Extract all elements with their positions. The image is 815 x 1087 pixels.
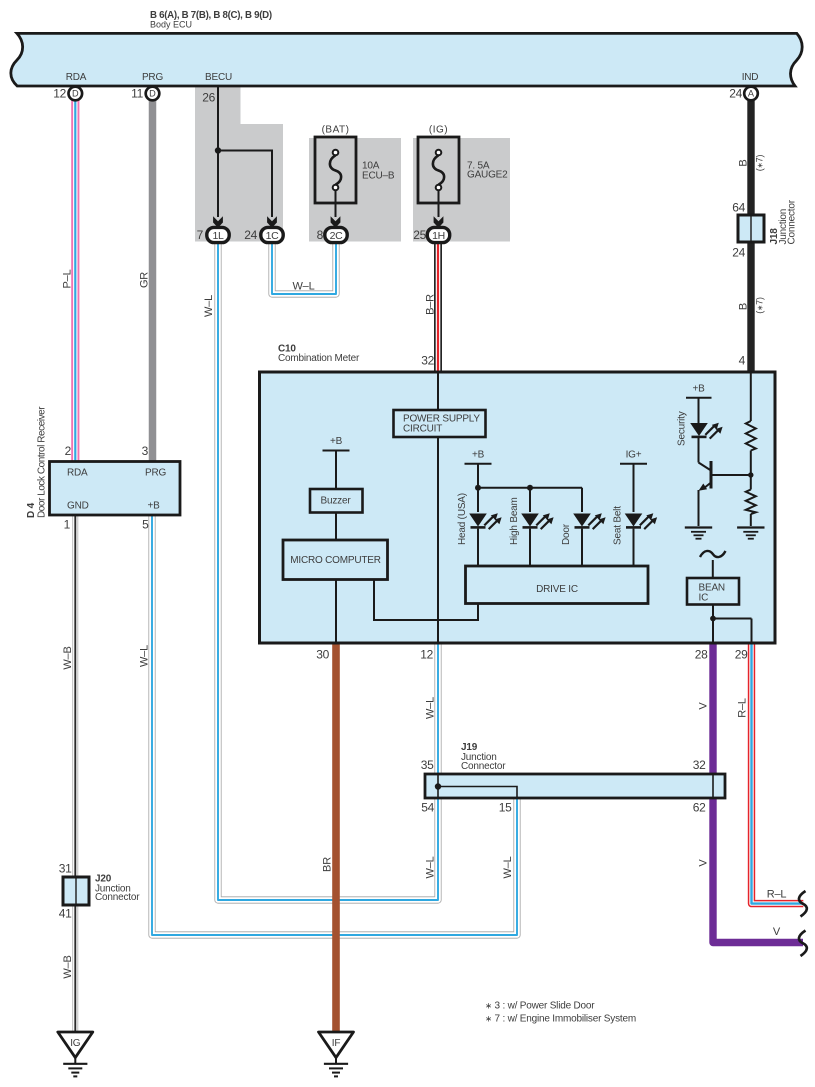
svg-text:1L: 1L bbox=[212, 230, 224, 242]
svg-text:A: A bbox=[748, 89, 755, 99]
transistor Q1 emitter diagonal bbox=[704, 483, 712, 489]
svg-text:W–L: W–L bbox=[139, 645, 151, 667]
antenna squiggle above BEAN IC bbox=[700, 551, 726, 557]
svg-text:1: 1 bbox=[64, 518, 71, 532]
svg-text:∗ 7 : w/ Engine Immobiliser Sy: ∗ 7 : w/ Engine Immobiliser System bbox=[485, 1014, 636, 1025]
LED Security bbox=[690, 423, 722, 439]
svg-text:12: 12 bbox=[420, 648, 433, 662]
svg-text:(∗7): (∗7) bbox=[755, 155, 765, 172]
svg-text:IG+: IG+ bbox=[626, 450, 642, 461]
svg-text:41: 41 bbox=[59, 907, 72, 921]
svg-text:54: 54 bbox=[421, 801, 434, 815]
svg-text:W–L: W–L bbox=[425, 856, 437, 878]
C10 Combination Meter box bbox=[260, 372, 776, 643]
junction dot below BEAN IC bbox=[710, 616, 716, 622]
wire MICRO COMPUTER to DRIVE IC bbox=[374, 580, 478, 621]
shaded region around fuse ECU-B bbox=[309, 138, 401, 242]
arrow into connector 1H bbox=[434, 216, 444, 228]
svg-text:W–L: W–L bbox=[425, 697, 437, 719]
svg-text:W–L: W–L bbox=[502, 856, 514, 878]
DRIVE IC box bbox=[466, 566, 649, 604]
fuse GAUGE2 7.5A (IG) bbox=[418, 137, 459, 217]
svg-text:IC: IC bbox=[699, 593, 709, 604]
svg-text:+B: +B bbox=[692, 384, 705, 395]
svg-text:GAUGE2: GAUGE2 bbox=[467, 170, 508, 181]
wire B (black) from IND through J18 to C10 pin4 bbox=[747, 100, 754, 371]
wire pin4 to resistor R1 bbox=[750, 374, 752, 422]
arrow into connector 1L bbox=[213, 216, 223, 228]
svg-text:12: 12 bbox=[53, 87, 66, 101]
svg-text:W–B: W–B bbox=[62, 646, 74, 669]
wire R1 to node bbox=[750, 451, 752, 490]
wire Door LED to DRIVE IC bbox=[581, 529, 583, 566]
BEAN IC box bbox=[687, 578, 739, 605]
wire BEAN IC to pin28 bbox=[712, 605, 714, 644]
svg-text:BR: BR bbox=[322, 857, 334, 872]
wire POWER SUPPLY CIRCUIT to pin12 bbox=[437, 437, 439, 643]
J20 designator label bbox=[95, 874, 140, 904]
svg-text:High Beam: High Beam bbox=[509, 497, 520, 545]
shaded region around BECU pins bbox=[195, 86, 283, 242]
wire P-L (pink-blue) from RDA to D4 pin2 bbox=[71, 100, 79, 462]
svg-text:ECU–B: ECU–B bbox=[362, 171, 395, 182]
svg-text:(IG): (IG) bbox=[429, 125, 448, 136]
wire MICRO COMPUTER to pin30 bbox=[335, 580, 337, 644]
svg-text:30: 30 bbox=[316, 648, 329, 662]
svg-text:24: 24 bbox=[244, 228, 257, 242]
wire R2 to ground bbox=[750, 514, 752, 526]
svg-text:64: 64 bbox=[732, 201, 745, 215]
svg-text:B–R: B–R bbox=[425, 294, 437, 315]
svg-text:PRG: PRG bbox=[142, 72, 163, 83]
svg-text:B: B bbox=[738, 303, 750, 310]
svg-text:35: 35 bbox=[421, 758, 434, 772]
svg-text:IF: IF bbox=[332, 1038, 341, 1049]
D4 Door Lock Control Receiver box bbox=[50, 462, 181, 516]
svg-text:Body ECU: Body ECU bbox=[150, 20, 192, 30]
+B supply bar (buzzer branch) bbox=[323, 450, 350, 452]
wire base to resistor divider node bbox=[711, 474, 751, 476]
wire Security LED to transistor collector bbox=[698, 437, 700, 462]
svg-text:5: 5 bbox=[142, 518, 149, 532]
wire V (violet) from C10 pin28 through J19 pin32/62 to right edge bbox=[713, 643, 803, 943]
svg-text:29: 29 bbox=[735, 648, 748, 662]
Body ECU band (torn-edge bus block) bbox=[11, 33, 802, 86]
svg-text:V: V bbox=[698, 859, 710, 867]
svg-text:Connector: Connector bbox=[461, 761, 506, 772]
connector oval 1H bbox=[427, 227, 449, 242]
wire B-R (black-red) from 1H to C10 pin32 bbox=[434, 242, 442, 371]
fuse ECU-B 10A (BAT) bbox=[315, 137, 356, 217]
transistor Q1 base bar bbox=[710, 461, 713, 489]
svg-text:W–B: W–B bbox=[62, 955, 74, 978]
+B supply bar (security branch) bbox=[686, 397, 712, 399]
transistor Q1 collector diagonal bbox=[699, 463, 712, 471]
svg-text:24: 24 bbox=[732, 246, 745, 260]
ground IG bbox=[58, 1032, 93, 1076]
svg-text:GR: GR bbox=[139, 272, 151, 288]
svg-text:V: V bbox=[773, 926, 781, 938]
wire emitter to ground bbox=[698, 490, 700, 526]
wire W-L from D4 pin5 +B to J19 pin15 bbox=[152, 514, 517, 935]
svg-text:CIRCUIT: CIRCUIT bbox=[403, 423, 442, 434]
svg-text:GND: GND bbox=[67, 501, 89, 512]
LED supply rail bbox=[478, 487, 582, 489]
arrow into connector 2C bbox=[331, 216, 341, 228]
junction connector J19 bbox=[425, 774, 725, 798]
svg-text:∗ 3 : w/ Power Slide Door: ∗ 3 : w/ Power Slide Door bbox=[485, 1001, 595, 1012]
svg-text:2: 2 bbox=[65, 444, 72, 458]
svg-text:(∗7): (∗7) bbox=[755, 297, 765, 314]
+B supply bar (LED rail) bbox=[465, 463, 492, 465]
transistor Q1 emitter arrowhead bbox=[699, 484, 708, 491]
wire branch to 1C bbox=[218, 151, 272, 218]
svg-text:Door: Door bbox=[561, 523, 572, 545]
svg-text:Seat Belt: Seat Belt bbox=[613, 506, 624, 545]
wire +B to Security LED bbox=[698, 398, 700, 423]
wire W-L from 1C to 2C bbox=[272, 242, 336, 294]
svg-text:R–L: R–L bbox=[767, 889, 787, 901]
wire IG+ to Seat Belt LED bbox=[633, 464, 635, 512]
torn end squiggle on wire V bbox=[799, 931, 807, 957]
wire rail to Door LED bbox=[581, 488, 583, 512]
svg-text:11: 11 bbox=[131, 87, 143, 101]
junction dot on BECU wire bbox=[215, 147, 221, 153]
svg-text:W–L: W–L bbox=[292, 281, 314, 293]
wire R-L (red-blue) from C10 pin29 to right edge bbox=[752, 643, 804, 904]
wire antenna squiggle to BEAN IC bbox=[712, 560, 714, 578]
svg-text:2C: 2C bbox=[330, 230, 344, 242]
ground under resistor R2 bbox=[737, 528, 764, 539]
svg-text:DRIVE IC: DRIVE IC bbox=[536, 584, 578, 595]
svg-text:7: 7 bbox=[197, 228, 204, 242]
connector circle A at IND bbox=[744, 87, 758, 101]
LED Door bbox=[573, 513, 605, 529]
wire +B to LED rail bbox=[477, 464, 479, 512]
wire BR (brown) from C10 pin30 to ground IF bbox=[332, 643, 340, 1031]
svg-text:Buzzer: Buzzer bbox=[321, 496, 352, 507]
svg-text:25: 25 bbox=[413, 228, 426, 242]
J19 internal bus pin32 to pin62 bbox=[712, 774, 714, 798]
svg-text:15: 15 bbox=[499, 801, 512, 815]
J19 designator label bbox=[461, 742, 506, 772]
wire Seat Belt LED to DRIVE IC bbox=[633, 529, 635, 566]
svg-text:62: 62 bbox=[693, 801, 706, 815]
J19 internal branch to pin15 bbox=[438, 787, 517, 799]
arrow into connector 1C bbox=[267, 216, 277, 228]
POWER SUPPLY CIRCUIT box bbox=[394, 410, 486, 437]
wire pin32 to POWER SUPPLY CIRCUIT bbox=[437, 374, 439, 411]
svg-text:PRG: PRG bbox=[145, 468, 166, 479]
svg-text:1H: 1H bbox=[432, 230, 445, 242]
svg-text:32: 32 bbox=[693, 758, 706, 772]
LED Seat Belt bbox=[625, 513, 657, 529]
connector oval 1C bbox=[261, 227, 283, 242]
svg-text:Combination Meter: Combination Meter bbox=[278, 353, 360, 364]
svg-text:BECU: BECU bbox=[205, 72, 232, 83]
wire +B to Buzzer bbox=[335, 451, 337, 490]
svg-text:26: 26 bbox=[202, 91, 215, 105]
ground IF bbox=[319, 1032, 354, 1076]
shaded region around fuse GAUGE2 bbox=[413, 138, 510, 242]
resistor R1 bbox=[746, 421, 756, 451]
svg-text:B: B bbox=[738, 159, 750, 166]
ground under transistor emitter bbox=[685, 528, 712, 539]
junction connector J20 bbox=[63, 877, 89, 905]
svg-text:IG: IG bbox=[70, 1038, 81, 1049]
svg-text:Security: Security bbox=[677, 411, 688, 446]
svg-text:+B: +B bbox=[472, 450, 485, 461]
junction dot on LED rail at High Beam bbox=[527, 485, 533, 491]
connector circle D at RDA bbox=[69, 87, 83, 101]
svg-text:D: D bbox=[149, 89, 156, 99]
J19 internal bus pin35 to pin54 bbox=[437, 774, 439, 798]
LED High Beam bbox=[521, 513, 553, 529]
resistor R2 bbox=[746, 490, 756, 515]
svg-text:W–L: W–L bbox=[203, 295, 215, 317]
svg-text:D: D bbox=[72, 89, 79, 99]
junction dot inside J19 bbox=[435, 783, 441, 789]
svg-text:+B: +B bbox=[330, 436, 343, 447]
wire High Beam LED to DRIVE IC bbox=[529, 529, 531, 566]
svg-text:28: 28 bbox=[695, 648, 708, 662]
connector circle D at PRG bbox=[146, 87, 160, 101]
connector oval 2C bbox=[325, 227, 347, 242]
MICRO COMPUTER box bbox=[283, 540, 388, 580]
svg-text:V: V bbox=[698, 702, 710, 710]
junction dot on LED rail at Head bbox=[475, 485, 481, 491]
svg-text:Head (USA): Head (USA) bbox=[457, 493, 468, 545]
svg-text:8: 8 bbox=[317, 228, 324, 242]
wire W-L from 1L to J19 pin54 bbox=[218, 242, 438, 900]
wire GR (gray) from PRG to D4 pin3 bbox=[149, 100, 157, 462]
connector oval 1L bbox=[207, 227, 229, 242]
wire BECU pin 26 down to 1L bbox=[217, 87, 219, 217]
Buzzer box bbox=[310, 489, 363, 513]
junction connector J18 bbox=[738, 215, 764, 242]
wire rail to High Beam LED bbox=[529, 488, 531, 512]
IG+ supply bar bbox=[620, 463, 647, 465]
svg-text:P–L: P–L bbox=[62, 269, 74, 288]
svg-text:Connector: Connector bbox=[95, 892, 140, 903]
svg-text:32: 32 bbox=[421, 354, 434, 368]
svg-text:+B: +B bbox=[148, 501, 161, 512]
svg-text:31: 31 bbox=[59, 862, 72, 876]
wire W-B (white-black) from D4 pin1 GND through J20 to ground IG bbox=[72, 514, 78, 1031]
svg-text:(BAT): (BAT) bbox=[322, 125, 350, 136]
LED Head (USA) bbox=[469, 513, 501, 529]
svg-text:MICRO COMPUTER: MICRO COMPUTER bbox=[290, 555, 381, 566]
svg-text:3: 3 bbox=[142, 444, 149, 458]
svg-text:1C: 1C bbox=[266, 230, 280, 242]
svg-text:IND: IND bbox=[742, 72, 759, 83]
torn end squiggle on wire R-L bbox=[799, 891, 807, 917]
svg-text:RDA: RDA bbox=[67, 468, 88, 479]
svg-text:4: 4 bbox=[739, 354, 746, 368]
wire W-L from C10 pin12 to J19 pin35 bbox=[434, 643, 441, 775]
svg-text:RDA: RDA bbox=[66, 72, 87, 83]
svg-text:R–L: R–L bbox=[737, 698, 749, 718]
junction dot at resistor divider node bbox=[748, 472, 753, 477]
wire branch BEAN IC node to pin29 bbox=[713, 618, 752, 620]
wire Buzzer to MICRO COMPUTER bbox=[335, 513, 337, 541]
wire Head LED to DRIVE IC bbox=[477, 529, 479, 566]
svg-text:24: 24 bbox=[729, 87, 742, 101]
